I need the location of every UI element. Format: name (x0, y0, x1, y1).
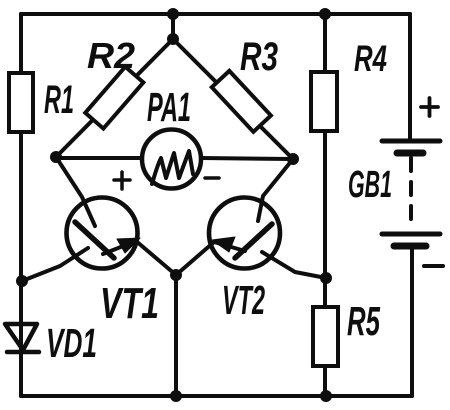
node bottom vertex (170, 269, 182, 281)
wire top vertex drop (171, 14, 175, 39)
svg-text:VT2: VT2 (222, 277, 265, 323)
svg-text:R2: R2 (87, 35, 135, 76)
node R5 top (320, 272, 332, 284)
resistor R4 (311, 72, 337, 131)
wire left node to meter (56, 156, 144, 160)
wire top rail (21, 12, 410, 16)
label plus battery (421, 98, 438, 116)
wire bottom rail (21, 394, 412, 398)
node bottom rail right (320, 390, 332, 402)
wire left rail (19, 14, 23, 396)
node top vertex (167, 33, 179, 45)
node right bridge (287, 153, 299, 165)
svg-text:VD1: VD1 (46, 320, 97, 366)
svg-text:R1: R1 (44, 78, 74, 122)
wire right rail lower (410, 246, 414, 396)
label plus meter (114, 172, 130, 189)
node bottom rail left (170, 390, 182, 402)
resistor R3 (212, 71, 271, 132)
resistor R2 (85, 67, 143, 129)
svg-text:R4: R4 (354, 38, 387, 79)
wire right rail upper (408, 14, 412, 141)
transistor VT1 (22, 157, 176, 281)
label minus battery (424, 264, 443, 268)
svg-text:R5: R5 (347, 298, 381, 344)
node top rail right (319, 8, 331, 20)
svg-text:PA1: PA1 (147, 84, 191, 130)
label minus meter (205, 176, 219, 180)
wire bridge arm R2 (56, 39, 173, 157)
transistor VT2 (176, 159, 326, 278)
wire meter to right node (201, 158, 293, 159)
node left rail VT1 base (16, 275, 28, 287)
wire R4 R5 column (323, 14, 327, 396)
diode VD1 (5, 324, 39, 352)
resistor R1 (9, 73, 33, 132)
resistor R5 (313, 307, 338, 366)
wire bridge arm R3 (173, 39, 293, 159)
svg-text:VT1: VT1 (100, 279, 159, 328)
meter PA1 (142, 130, 201, 189)
battery GB1 (382, 141, 440, 246)
wire bottom vertex drop (174, 275, 178, 396)
svg-text:GB1: GB1 (348, 164, 392, 206)
node top rail left (167, 8, 179, 20)
svg-text:R3: R3 (240, 35, 278, 79)
node left bridge (50, 151, 62, 163)
